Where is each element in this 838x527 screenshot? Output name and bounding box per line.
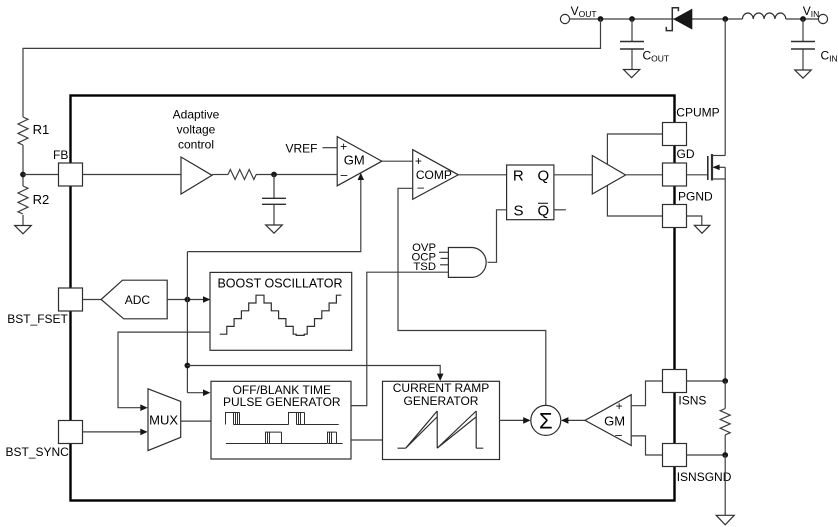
buffer U1 adaptive voltage control [181, 157, 212, 194]
wire MUX to pulse generator [181, 420, 211, 422]
summer node sigma [531, 405, 561, 435]
wire buffer to resistor [212, 174, 228, 176]
capacitor C1 compensation [262, 175, 286, 226]
pin ISNSGND [663, 444, 687, 467]
svg-text:ISNSGND: ISNSGND [677, 470, 732, 484]
wire latch Q to driver [554, 174, 592, 176]
svg-text:GM: GM [344, 153, 365, 168]
wire ISNS to sense resistor [687, 380, 726, 382]
wire sense to ground [724, 455, 726, 515]
latch U2 SR [507, 165, 554, 220]
wire BST_FSET to ADC [83, 299, 102, 301]
diode D1 schottky [666, 8, 692, 31]
svg-text:R: R [513, 168, 524, 185]
svg-text:+: + [340, 140, 347, 154]
wire FB tap [23, 174, 59, 176]
terminal VIN [818, 14, 827, 23]
wire BST_SYNC to MUX [83, 431, 142, 433]
node dot COUT tap [629, 16, 635, 22]
node dot sense bottom [722, 452, 728, 458]
wire arrow into pulse generator [187, 389, 210, 396]
wire pulse generator to ramp generator [351, 439, 383, 441]
wire OCP stub [441, 257, 449, 259]
svg-text:VIN: VIN [803, 4, 820, 19]
wire ramp input arrow [187, 366, 443, 382]
wire driver to GD [626, 174, 663, 176]
wire OVP stub [439, 251, 448, 253]
svg-text:CIN: CIN [821, 49, 838, 64]
capacitor CIN [791, 19, 815, 70]
svg-text:CURRENT RAMP: CURRENT RAMP [393, 381, 489, 395]
svg-text:–: – [615, 428, 622, 442]
op-amp GM2 current sense [585, 395, 631, 446]
waveform sawtooth [398, 411, 484, 448]
IC boundary box [71, 96, 675, 501]
wire R1 to FB [22, 145, 24, 186]
svg-text:BST_FSET: BST_FSET [7, 312, 68, 326]
wire PGND to ground [687, 216, 702, 225]
node dot sense top [722, 378, 728, 384]
node dot FB divider [20, 172, 26, 178]
ground C1 [266, 225, 283, 233]
resistor R2 [18, 186, 28, 214]
arrowhead MUX input 2 [140, 429, 147, 436]
svg-text:Σ: Σ [539, 408, 553, 433]
svg-text:PGND: PGND [678, 190, 713, 204]
node dot ADC output [185, 297, 191, 303]
wire ADC to oscillator arrow [167, 296, 210, 303]
wire VREF to GM1 [323, 147, 338, 149]
svg-text:+: + [616, 399, 623, 413]
resistor RSNS [720, 409, 730, 435]
resistor R3 compensation [228, 170, 256, 180]
svg-text:BST_SYNC: BST_SYNC [6, 445, 70, 459]
ground COUT [624, 70, 640, 78]
ground ISNSGND [716, 515, 734, 525]
wire R2 to ground [22, 215, 24, 226]
capacitor COUT [620, 19, 644, 70]
pin BST_SYNC [59, 421, 83, 444]
terminal VOUT [560, 14, 569, 23]
node dot switch node [722, 16, 728, 22]
gate U3 AND [448, 248, 486, 278]
svg-text:GENERATOR: GENERATOR [404, 394, 479, 408]
ground PGND [694, 225, 709, 233]
wire ISNSGND to sense resistor [687, 454, 726, 456]
node dot ramp tap [185, 363, 191, 369]
svg-text:Q: Q [538, 203, 550, 220]
svg-text:CPUMP: CPUMP [676, 106, 719, 120]
svg-text:PULSE GENERATOR: PULSE GENERATOR [223, 395, 341, 409]
svg-text:Adaptive: Adaptive [173, 108, 220, 122]
wire GM1 adaptive input arrow [187, 173, 364, 252]
wire latch Qbar stub [554, 209, 566, 211]
transistor Q1 nmos [708, 154, 725, 181]
wire inductor to VIN [786, 18, 819, 20]
wire oscillator to MUX [118, 332, 210, 408]
wire CPUMP branch [607, 134, 662, 165]
ground R2 [15, 226, 32, 234]
wire adaptive control riser [186, 252, 188, 393]
arrowhead MUX input 1 [140, 404, 147, 411]
op-amp GM1 error amplifier [337, 137, 382, 186]
svg-text:–: – [341, 167, 348, 181]
waveform pulse train upper [226, 413, 339, 425]
wire source to ISNS [724, 167, 726, 381]
wire GM2 to summer arrow [561, 417, 585, 424]
wire drain to switch node [724, 19, 726, 156]
wire blank time to AND [351, 272, 448, 405]
svg-text:VOUT: VOUT [571, 4, 597, 19]
wire sense resistor top [724, 381, 726, 409]
resistor R1 [18, 117, 28, 145]
svg-text:S: S [514, 203, 524, 220]
buffer U4 gate driver [592, 156, 625, 195]
ground CIN [795, 70, 811, 78]
svg-text:ISNS: ISNS [678, 394, 706, 408]
wire resistor to GM1 [256, 174, 337, 176]
svg-text:FB: FB [53, 148, 68, 162]
block OFF/BLANK TIME PULSE GENERATOR [211, 381, 351, 459]
wire AND to latch S [488, 210, 507, 262]
svg-text:TSD: TSD [413, 261, 436, 273]
wire COMP to latch R [458, 174, 506, 176]
svg-text:VREF: VREF [286, 142, 318, 156]
wire feedback drop [23, 19, 601, 117]
svg-text:–: – [417, 180, 424, 194]
wire ramp to summer arrow [499, 417, 531, 424]
svg-text:COUT: COUT [643, 49, 670, 64]
svg-text:+: + [415, 154, 422, 168]
inductor L1 [742, 13, 785, 19]
svg-text:voltage: voltage [177, 123, 216, 137]
wire TSD stub [440, 264, 448, 266]
waveform pulse train lower [226, 432, 343, 443]
node dot compensation [271, 172, 277, 178]
wire PGND branch [607, 186, 662, 217]
svg-text:BOOST OSCILLATOR: BOOST OSCILLATOR [217, 276, 342, 290]
pin ISNS [663, 370, 687, 393]
svg-text:GM: GM [604, 413, 625, 428]
node dot feedback tap [598, 16, 604, 22]
pin GD [663, 163, 687, 186]
svg-text:Q: Q [538, 168, 550, 185]
waveform staircase [220, 295, 342, 335]
svg-text:control: control [178, 138, 214, 152]
op-amp COMP pwm comparator [413, 150, 459, 200]
pin FB [59, 163, 83, 186]
block ADC [101, 280, 167, 319]
wire sense resistor bottom [724, 435, 726, 455]
pin BST_FSET [59, 288, 83, 311]
node dot CIN tap [800, 16, 806, 22]
wire FB to buffer [83, 174, 182, 176]
svg-text:R1: R1 [33, 122, 50, 137]
block CURRENT RAMP GENERATOR [383, 381, 500, 460]
wire GM2 plus input [631, 381, 662, 406]
wire COMP minus input [398, 188, 546, 405]
block MUX [148, 389, 181, 451]
svg-text:R2: R2 [33, 192, 50, 207]
wire top rail VOUT to inductor [570, 18, 743, 20]
pin PGND [663, 205, 687, 228]
svg-text:MUX: MUX [149, 413, 178, 428]
svg-text:GD: GD [677, 147, 695, 161]
block BOOST OSCILLATOR [210, 272, 352, 350]
svg-text:ADC: ADC [125, 293, 151, 307]
wire GD to gate [687, 174, 708, 176]
wire GM1 to COMP [382, 160, 413, 162]
wire GM2 minus input [631, 436, 662, 455]
pin CPUMP [663, 123, 687, 146]
